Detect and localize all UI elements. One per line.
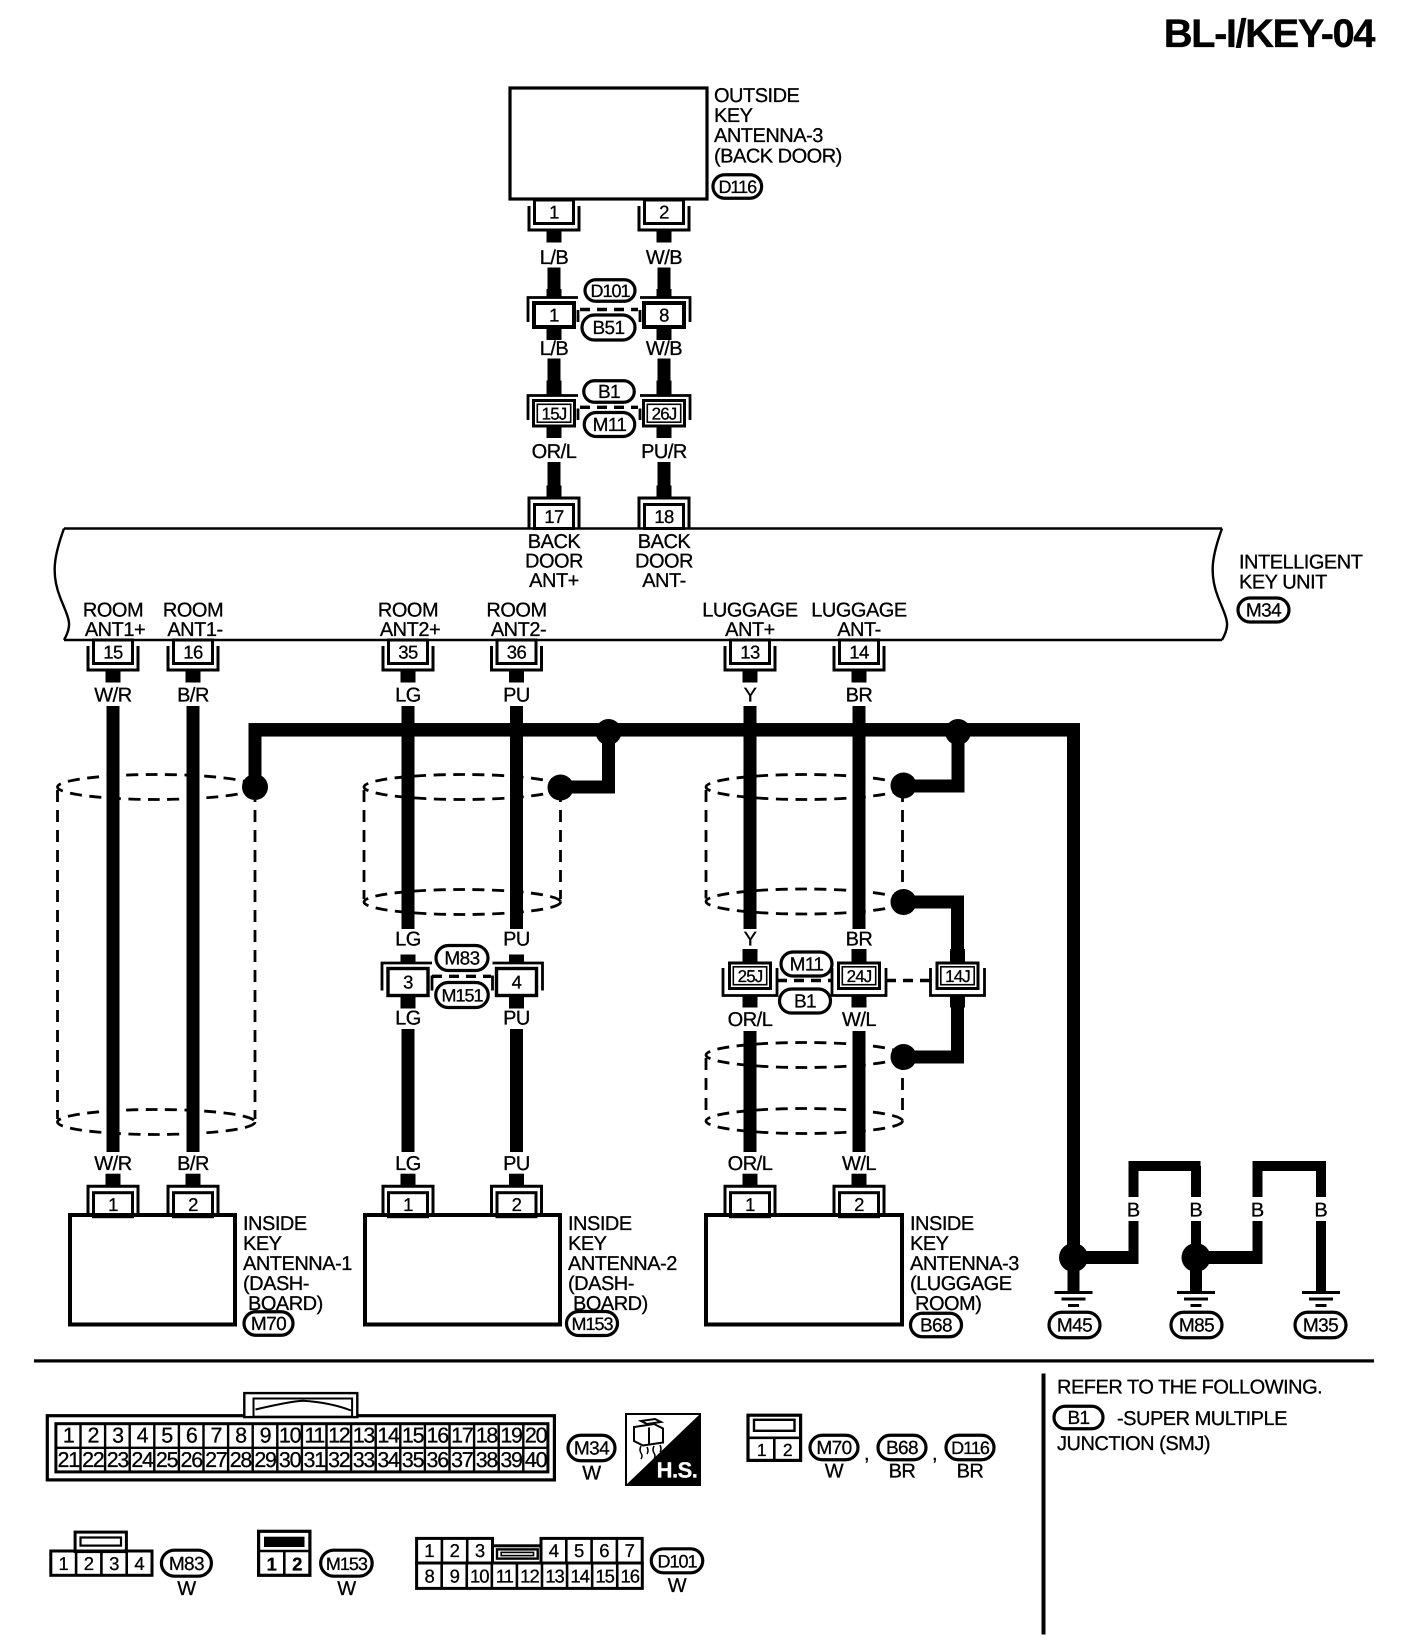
svg-text:KEY: KEY (714, 105, 753, 127)
wire L/B segment (548, 268, 561, 293)
svg-text:24J: 24J (847, 967, 872, 986)
svg-text:1: 1 (424, 1540, 434, 1561)
svg-text:B: B (1251, 1200, 1264, 1222)
connector D101/B51 pin 1 (547, 289, 562, 299)
svg-text:LG: LG (395, 1153, 421, 1175)
svg-text:29: 29 (254, 1448, 276, 1472)
pin 1 of inside key antenna-3 (731, 1193, 770, 1217)
connector D101 oval (585, 280, 635, 302)
svg-text:B: B (1127, 1200, 1140, 1222)
svg-text:,: , (932, 1443, 937, 1465)
svg-text:BR: BR (957, 1461, 984, 1483)
pin 13 luggage ant+ (731, 640, 770, 664)
junction dot on bus above shield 2 (596, 719, 622, 745)
svg-text:ANT1-: ANT1- (167, 619, 222, 641)
pin 2 of inside key antenna-3 (840, 1193, 879, 1217)
svg-text:10: 10 (279, 1424, 302, 1448)
wire M85 dot to U2 (1196, 1251, 1263, 1264)
svg-text:22: 22 (82, 1448, 104, 1472)
svg-text:ANTENNA-2: ANTENNA-2 (568, 1253, 677, 1275)
dashed connector link M83-M151 (432, 975, 491, 978)
svg-text:7: 7 (210, 1424, 221, 1448)
svg-text:Y: Y (744, 685, 757, 707)
svg-text:6: 6 (599, 1540, 609, 1561)
svg-text:27: 27 (205, 1448, 227, 1472)
connector M153 oval (567, 1312, 618, 1336)
wire W/R room ant1+ (107, 706, 120, 1152)
svg-text:8: 8 (424, 1566, 434, 1587)
connector M11 oval (584, 413, 635, 437)
SMJ connector pin 24J (852, 949, 867, 963)
ground jumper U1 (1129, 1221, 1139, 1264)
svg-text:PU: PU (503, 1008, 530, 1030)
dashed connector link 24J-14J (886, 979, 930, 982)
svg-text:39: 39 (500, 1448, 522, 1472)
svg-text:INSIDE: INSIDE (568, 1213, 632, 1235)
intelligent key unit box M34 outline (64, 527, 1222, 529)
svg-text:W: W (337, 1578, 356, 1600)
svg-text:3: 3 (112, 1424, 124, 1448)
svg-text:BR: BR (846, 685, 873, 707)
svg-text:PU/R: PU/R (641, 441, 687, 463)
connector D116 oval bottom (946, 1435, 994, 1460)
svg-text:8: 8 (659, 305, 669, 326)
wire M85 to ground (1190, 1258, 1202, 1293)
connector M11 oval at 25J (781, 952, 832, 976)
svg-text:W: W (582, 1463, 601, 1485)
svg-text:B68: B68 (920, 1316, 952, 1337)
svg-text:20: 20 (525, 1424, 548, 1448)
svg-text:W/R: W/R (94, 1153, 131, 1175)
svg-text:M34: M34 (574, 1439, 610, 1460)
svg-text:2: 2 (512, 1194, 522, 1215)
shield cylinder around room ant2 wires (364, 775, 561, 800)
junction dot on shield 3 (891, 773, 917, 799)
svg-text:5: 5 (574, 1540, 584, 1561)
connector B1 oval (584, 381, 635, 403)
inside key antenna-2 box (365, 1215, 560, 1325)
svg-text:36: 36 (507, 641, 527, 662)
svg-text:25J: 25J (738, 967, 763, 986)
pin 18 back door ant- (645, 505, 684, 529)
svg-text:ANTENNA-1: ANTENNA-1 (243, 1253, 352, 1275)
svg-text:3: 3 (403, 972, 413, 993)
ground M35 oval (1295, 1312, 1346, 1338)
svg-text:ANT-: ANT- (837, 619, 881, 641)
svg-text:1: 1 (59, 1553, 69, 1574)
connector D101 oval bottom (651, 1549, 703, 1573)
svg-text:M34: M34 (1246, 601, 1282, 622)
wire OR/L lower segment (744, 1031, 757, 1152)
svg-text:2: 2 (450, 1540, 460, 1561)
svg-text:JUNCTION (SMJ): JUNCTION (SMJ) (1057, 1433, 1210, 1455)
svg-text:W/B: W/B (646, 338, 682, 360)
connector face 4-pin M83 (75, 1532, 126, 1552)
ground jumper U2 (1253, 1221, 1263, 1264)
svg-text:INSIDE: INSIDE (910, 1213, 974, 1235)
outside key antenna-3 box (back door) (510, 88, 707, 199)
svg-text:ANT-: ANT- (642, 570, 686, 592)
svg-text:35: 35 (402, 1448, 425, 1472)
pin 2 of D116 (645, 200, 684, 224)
svg-text:(LUGGAGE: (LUGGAGE (910, 1273, 1012, 1295)
shield cylinder around luggage wires upper (706, 775, 903, 800)
svg-text:2: 2 (659, 201, 669, 222)
dashed connector link 25J-24J (777, 979, 832, 982)
SMJ connector pin 26J (657, 381, 672, 397)
shield cylinder around room ant1 wires (58, 775, 256, 800)
svg-text:23: 23 (107, 1448, 130, 1472)
wire PU lower segment (510, 1029, 523, 1152)
svg-text:INSIDE: INSIDE (243, 1213, 307, 1235)
pin 35 room ant2+ (389, 640, 428, 664)
svg-text:3: 3 (109, 1553, 119, 1574)
svg-text:15: 15 (103, 641, 123, 662)
connector M70 oval (244, 1312, 293, 1336)
svg-text:OR/L: OR/L (728, 1009, 773, 1031)
svg-text:1: 1 (757, 1440, 766, 1460)
svg-text:M11: M11 (593, 415, 627, 436)
wire L/B segment 2 (548, 359, 561, 389)
connector M83 oval (436, 946, 488, 971)
svg-text:18: 18 (654, 506, 674, 527)
junction dot above ground M85 (1182, 1243, 1211, 1272)
svg-text:M70: M70 (251, 1314, 286, 1335)
svg-text:2: 2 (292, 1554, 302, 1575)
svg-text:11: 11 (496, 1566, 514, 1587)
svg-text:B/R: B/R (177, 1153, 209, 1175)
dashed connector link D101-B51 (580, 308, 638, 311)
svg-text:KEY: KEY (243, 1233, 282, 1255)
bus branch to shield 2 (602, 732, 615, 794)
svg-text:8: 8 (235, 1424, 247, 1448)
svg-text:36: 36 (427, 1448, 450, 1472)
svg-text:KEY UNIT: KEY UNIT (1239, 572, 1327, 594)
bus right corner down to grounds (1067, 730, 1080, 1258)
svg-text:B1: B1 (598, 382, 620, 403)
wire LG room ant2+ upper (402, 706, 415, 929)
svg-text:10: 10 (470, 1566, 489, 1587)
svg-text:(BACK DOOR): (BACK DOOR) (714, 145, 842, 167)
connector B68 oval (911, 1313, 962, 1337)
SMJ connector pin 14J (950, 949, 965, 963)
svg-text:D116: D116 (718, 177, 757, 197)
svg-text:B68: B68 (886, 1438, 918, 1459)
svg-text:M45: M45 (1057, 1316, 1092, 1337)
wire OR/L segment (548, 462, 561, 488)
svg-text:B/R: B/R (177, 685, 209, 707)
svg-text:D101: D101 (590, 281, 630, 301)
svg-text:26J: 26J (652, 404, 677, 423)
svg-text:1: 1 (267, 1554, 277, 1575)
svg-text:(DASH-: (DASH- (243, 1273, 309, 1295)
svg-text:M85: M85 (1179, 1316, 1214, 1337)
svg-text:9: 9 (450, 1566, 460, 1587)
svg-text:15: 15 (402, 1424, 425, 1448)
wire LG lower segment (402, 1029, 415, 1152)
connector face 2-pin M70/B68/D116 (748, 1415, 801, 1460)
svg-text:OR/L: OR/L (728, 1153, 773, 1175)
pin 1 of inside key antenna-1 (94, 1193, 133, 1217)
inside key antenna-3 box (706, 1215, 902, 1325)
svg-text:1: 1 (108, 1194, 118, 1215)
wire M45 dot to U1 (1074, 1251, 1139, 1264)
ground M85 oval (1171, 1312, 1222, 1338)
svg-text:38: 38 (476, 1448, 499, 1472)
svg-text:PU: PU (503, 685, 530, 707)
pin 36 room ant2- (497, 640, 536, 664)
svg-text:B51: B51 (592, 318, 624, 339)
svg-text:M153: M153 (571, 1314, 613, 1334)
svg-text:OR/L: OR/L (532, 441, 577, 463)
svg-text:BR: BR (846, 929, 873, 951)
wire B/R room ant1- (187, 706, 200, 1152)
svg-text:BR: BR (889, 1461, 916, 1483)
connector D116 oval (713, 175, 762, 199)
connector face 16-pin D101 (417, 1538, 493, 1563)
svg-text:D116: D116 (951, 1438, 990, 1458)
connector M151 oval (436, 983, 489, 1008)
svg-text:OUTSIDE: OUTSIDE (714, 85, 800, 107)
svg-text:M83: M83 (169, 1554, 204, 1575)
svg-text:2: 2 (87, 1424, 98, 1448)
svg-text:2: 2 (783, 1440, 792, 1460)
junction dot above ground M45 (1059, 1243, 1088, 1272)
pin 2 of inside key antenna-1 (174, 1193, 213, 1217)
SMJ connector pin 15J (547, 381, 562, 397)
ground symbol M35 (1302, 1291, 1340, 1294)
connector D101/B51 pin 8 (657, 289, 672, 299)
svg-text:3: 3 (475, 1540, 485, 1561)
svg-text:1: 1 (549, 201, 559, 222)
pin 14 luggage ant- (840, 640, 879, 664)
svg-text:B: B (1314, 1200, 1327, 1222)
svg-text:14: 14 (570, 1566, 589, 1587)
svg-text:30: 30 (279, 1448, 302, 1472)
svg-text:W/L: W/L (842, 1153, 876, 1175)
connector M83/M151 pin 3 (401, 955, 416, 965)
svg-text:BL-I/KEY-04: BL-I/KEY-04 (1164, 12, 1376, 56)
svg-text:13: 13 (740, 641, 760, 662)
svg-text:ANTENNA-3: ANTENNA-3 (714, 125, 823, 147)
dashed connector link B1-M11 (580, 406, 638, 409)
junction dot on shield 1 (242, 774, 268, 800)
separator line (34, 1359, 1374, 1362)
svg-text:ANT+: ANT+ (529, 570, 579, 592)
svg-text:M153: M153 (326, 1554, 368, 1574)
svg-text:INTELLIGENT: INTELLIGENT (1239, 552, 1363, 574)
wire Y luggage ant+ upper (744, 706, 757, 929)
shield cylinder around luggage wires lower (706, 1043, 903, 1068)
svg-text:14: 14 (377, 1424, 400, 1448)
svg-text:13: 13 (545, 1566, 564, 1587)
connector face 2-pin M153 (259, 1531, 310, 1575)
svg-text:PU: PU (503, 929, 530, 951)
svg-text:LG: LG (395, 929, 421, 951)
svg-text:1: 1 (63, 1424, 74, 1448)
wire shield3 to 14J (891, 889, 917, 915)
svg-text:,: , (864, 1443, 869, 1465)
svg-text:H.S.: H.S. (657, 1458, 698, 1483)
connector B51 oval (582, 315, 635, 340)
svg-text:13: 13 (353, 1424, 376, 1448)
svg-text:M83: M83 (444, 949, 479, 970)
svg-text:W/R: W/R (94, 685, 131, 707)
wire PU room ant2- upper (510, 706, 523, 929)
svg-text:32: 32 (328, 1448, 350, 1472)
wire BR luggage ant- upper (853, 706, 866, 929)
svg-text:14: 14 (849, 641, 869, 662)
shield ground bus horizontal (249, 723, 1081, 737)
svg-text:12: 12 (328, 1424, 350, 1448)
svg-text:1: 1 (403, 1194, 413, 1215)
svg-text:M35: M35 (1303, 1316, 1338, 1337)
pin 2 of inside key antenna-2 (497, 1193, 536, 1217)
svg-text:ANT1+: ANT1+ (85, 619, 145, 641)
svg-text:4: 4 (512, 972, 522, 993)
svg-text:11: 11 (304, 1424, 324, 1448)
pin 17 back door ant+ (535, 505, 574, 529)
svg-text:17: 17 (544, 506, 564, 527)
connector M70 oval bottom (810, 1435, 858, 1460)
svg-text:W/B: W/B (646, 247, 682, 269)
bus branch to shield 3 (952, 732, 965, 793)
svg-text:28: 28 (230, 1448, 253, 1472)
svg-text:2: 2 (188, 1194, 198, 1215)
wire W/B segment (658, 268, 671, 293)
svg-text:ANT+: ANT+ (725, 619, 775, 641)
SMJ connector pin 25J (743, 949, 758, 963)
svg-text:4: 4 (134, 1553, 144, 1574)
pin 1 of inside key antenna-2 (389, 1193, 428, 1217)
svg-text:-SUPER MULTIPLE: -SUPER MULTIPLE (1117, 1408, 1287, 1430)
svg-text:D101: D101 (657, 1552, 697, 1572)
svg-text:31: 31 (304, 1448, 326, 1472)
connector B1 oval in note (1054, 1406, 1103, 1429)
svg-text:24: 24 (131, 1448, 154, 1472)
pin 16 room ant1- (174, 640, 213, 664)
svg-text:17: 17 (451, 1424, 473, 1448)
svg-text:2: 2 (854, 1194, 864, 1215)
connector M34 40-pin face (47, 1416, 554, 1480)
svg-text:LG: LG (395, 1008, 421, 1030)
svg-text:15J: 15J (542, 404, 567, 423)
connector M83 oval bottom (161, 1550, 211, 1576)
svg-text:16: 16 (427, 1424, 450, 1448)
wire M45 to ground (1068, 1258, 1080, 1293)
svg-text:W: W (177, 1578, 196, 1600)
connector M34 oval (1238, 598, 1289, 622)
connector B1 oval at 25J (780, 989, 831, 1013)
svg-text:7: 7 (625, 1540, 635, 1561)
svg-text:1: 1 (549, 305, 559, 326)
svg-text:Y: Y (744, 929, 757, 951)
svg-text:ANT2+: ANT2+ (380, 619, 440, 641)
svg-text:15: 15 (595, 1566, 614, 1587)
svg-text:PU: PU (503, 1153, 530, 1175)
svg-text:KEY: KEY (568, 1233, 607, 1255)
svg-text:B: B (1189, 1200, 1202, 1222)
svg-text:25: 25 (156, 1448, 179, 1472)
svg-text:ANT2-: ANT2- (491, 619, 546, 641)
svg-text:26: 26 (181, 1448, 204, 1472)
svg-text:16: 16 (620, 1566, 639, 1587)
svg-text:L/B: L/B (540, 247, 569, 269)
svg-text:M70: M70 (816, 1438, 851, 1459)
svg-text:4: 4 (137, 1424, 149, 1448)
svg-text:14J: 14J (945, 967, 970, 986)
wire PU/R segment (658, 462, 671, 488)
vertical divider line (1042, 1374, 1046, 1635)
svg-text:35: 35 (398, 641, 418, 662)
wire 14J to shield4 (951, 1001, 964, 1064)
svg-text:18: 18 (476, 1424, 499, 1448)
svg-text:ANTENNA-3: ANTENNA-3 (910, 1253, 1019, 1275)
svg-text:REFER TO THE FOLLOWING.: REFER TO THE FOLLOWING. (1057, 1377, 1322, 1399)
connector M153 oval bottom (321, 1550, 373, 1576)
inside key antenna-1 box (70, 1215, 235, 1325)
svg-text:M151: M151 (441, 986, 483, 1006)
connector M83/M151 pin 4 (509, 955, 524, 965)
svg-text:2: 2 (84, 1553, 94, 1574)
svg-text:KEY: KEY (910, 1233, 949, 1255)
svg-text:40: 40 (525, 1448, 548, 1472)
junction dot on shield 2 (548, 775, 574, 801)
connector M34 oval bottom (568, 1435, 615, 1461)
svg-text:4: 4 (549, 1540, 559, 1561)
svg-text:5: 5 (161, 1424, 173, 1448)
junction dot on bus above shield 3 (945, 719, 971, 745)
svg-text:LG: LG (395, 685, 421, 707)
svg-text:33: 33 (353, 1448, 376, 1472)
pin 15 room ant1+ (94, 640, 133, 664)
svg-text:B1: B1 (794, 992, 816, 1013)
wire W/L lower segment (853, 1031, 866, 1152)
svg-text:1: 1 (745, 1194, 755, 1215)
svg-text:B1: B1 (1067, 1408, 1089, 1429)
svg-text:W: W (825, 1461, 844, 1483)
svg-text:6: 6 (186, 1424, 198, 1448)
svg-text:19: 19 (500, 1424, 522, 1448)
svg-text:12: 12 (520, 1566, 539, 1587)
pin 1 of D116 (535, 200, 574, 224)
svg-text:W/L: W/L (842, 1009, 876, 1031)
harness side view icon H.S. (626, 1414, 700, 1485)
svg-text:W: W (668, 1575, 687, 1597)
svg-text:M11: M11 (790, 955, 824, 976)
svg-text:37: 37 (451, 1448, 473, 1472)
connector B68 oval bottom (878, 1435, 926, 1460)
ground symbol M85 (1177, 1291, 1215, 1294)
svg-text:21: 21 (58, 1448, 80, 1472)
ground M45 oval (1049, 1312, 1100, 1338)
wire W/B segment 2 (658, 359, 671, 389)
svg-text:16: 16 (183, 641, 203, 662)
svg-text:9: 9 (260, 1424, 271, 1448)
svg-text:(DASH-: (DASH- (568, 1273, 634, 1295)
ground symbol M45 (1055, 1291, 1093, 1294)
svg-text:34: 34 (377, 1448, 400, 1472)
bus left corner down to shield 1 (249, 730, 262, 787)
svg-text:L/B: L/B (540, 338, 569, 360)
